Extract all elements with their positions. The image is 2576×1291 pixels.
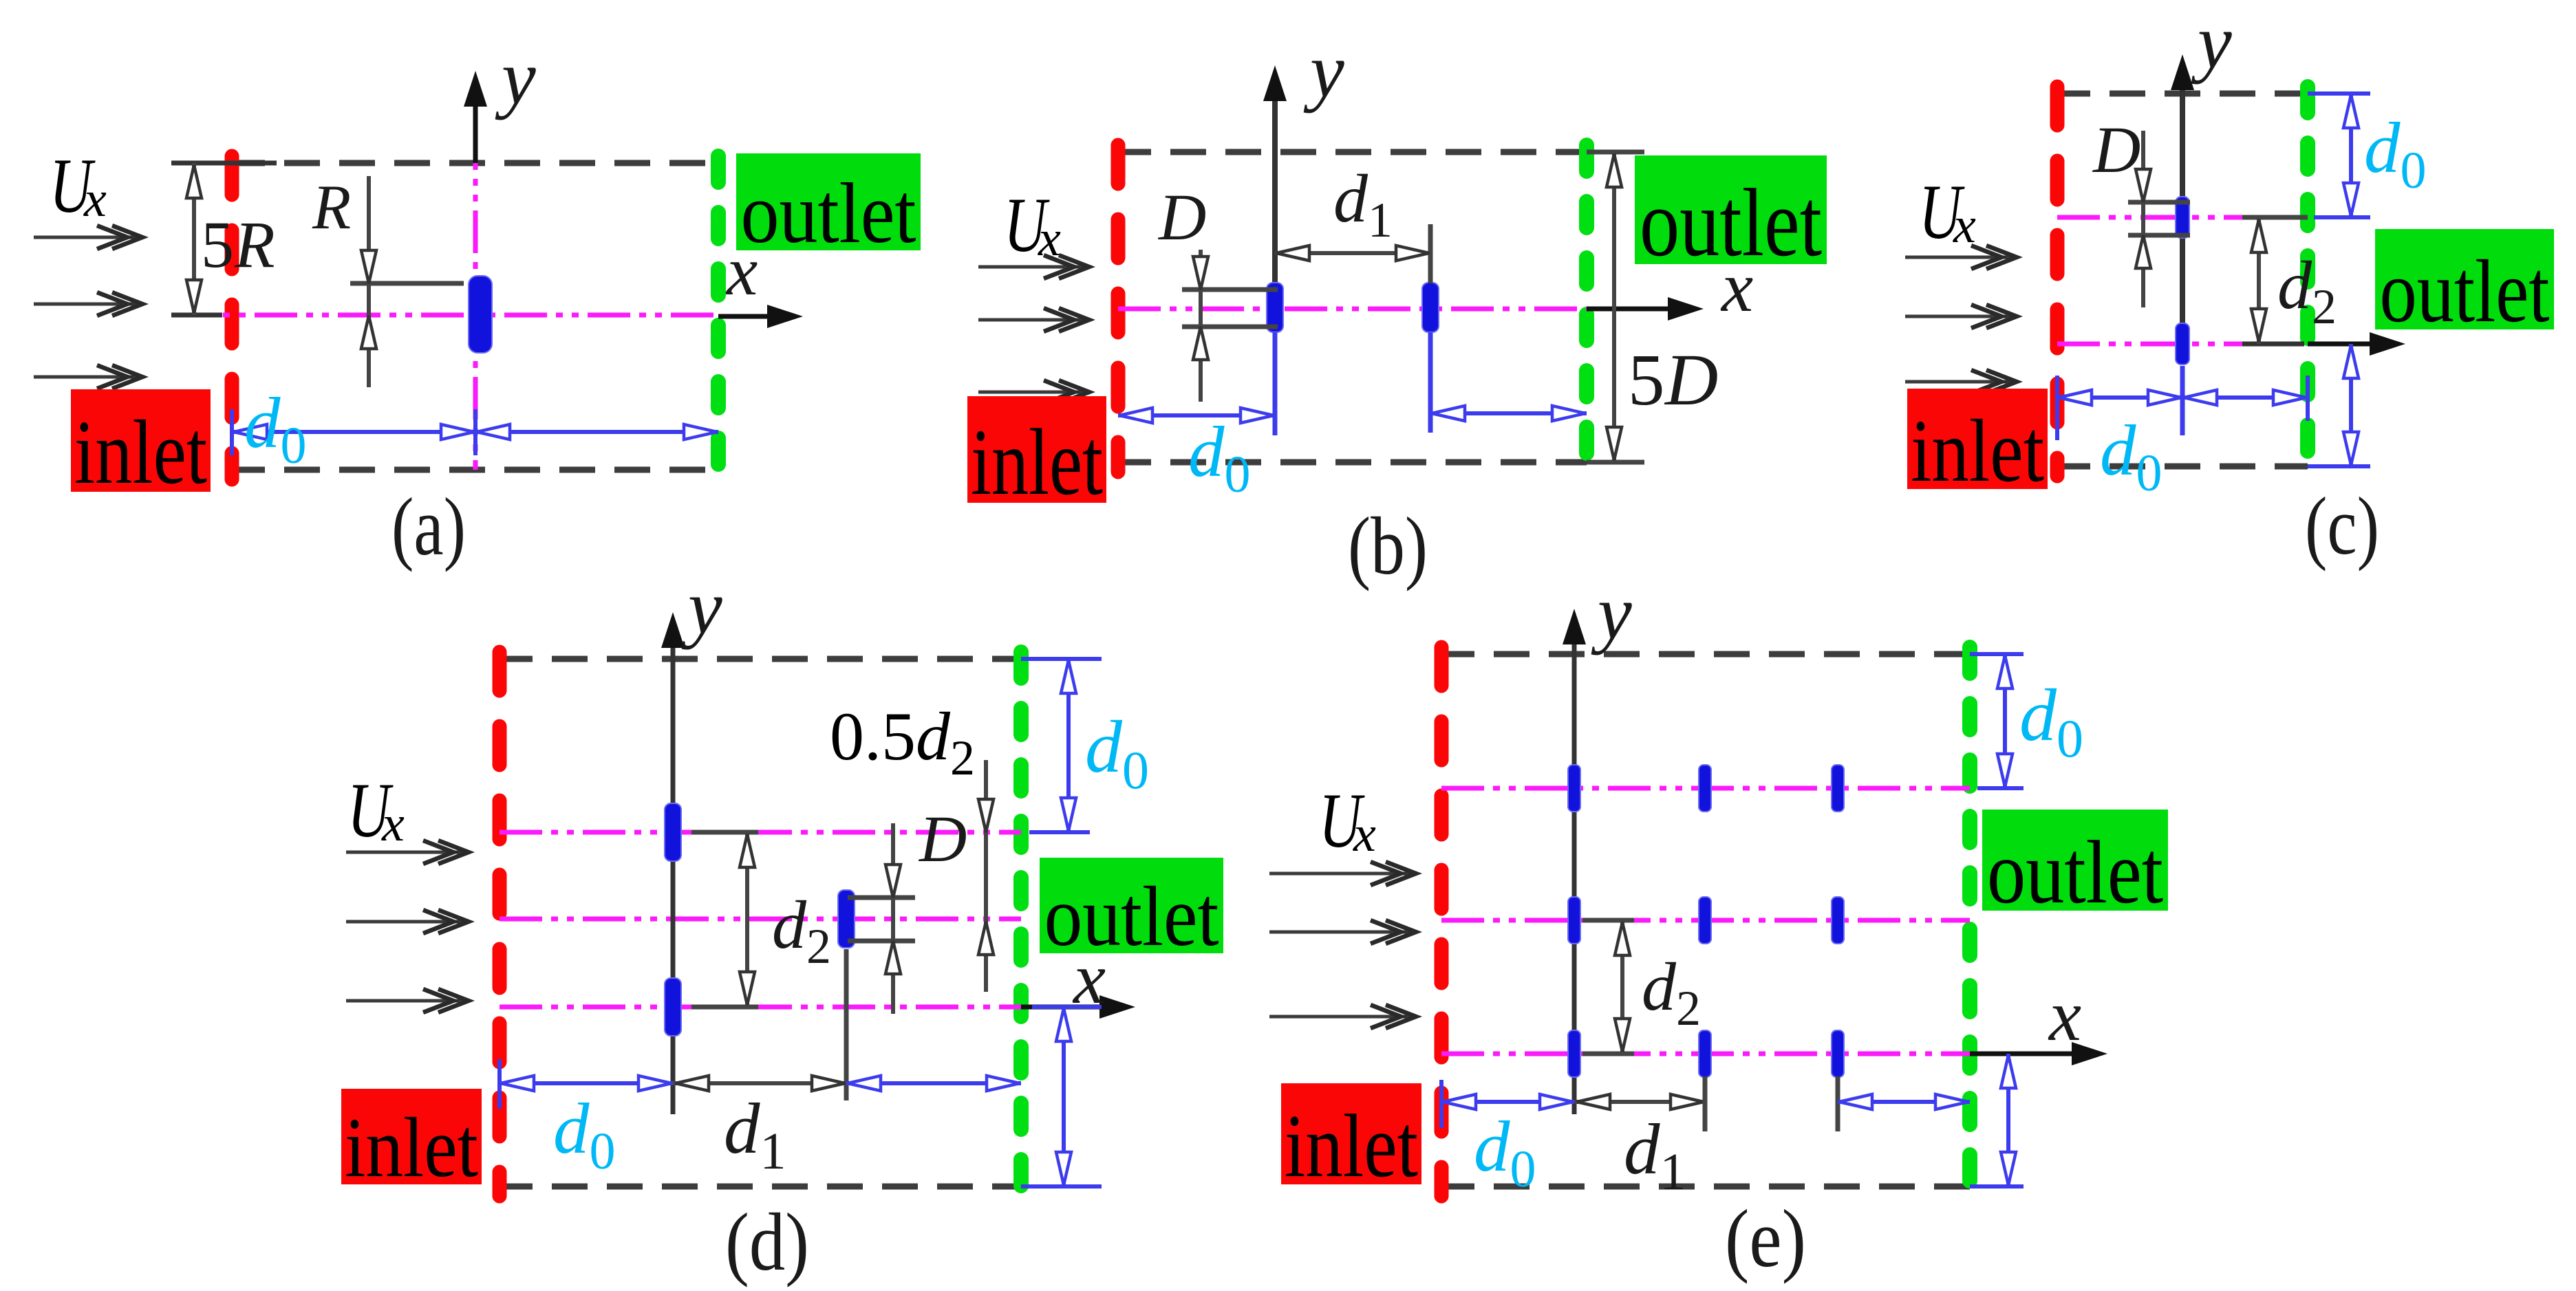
plate obstacle 1 (b): [1267, 283, 1283, 332]
svg-text:D: D: [1664, 340, 1718, 421]
plate obstacle upper (c): [2176, 197, 2189, 238]
centerline row1 (e): [1441, 786, 1970, 791]
inlet label box (e): [1281, 1083, 1421, 1184]
bottom-right vertical dimension (d): [1021, 1184, 1102, 1189]
d2 dimension (c): [2242, 215, 2308, 220]
D dimension (b): [1182, 288, 1278, 292]
domain boundary bottom wall (b): [1115, 459, 1587, 466]
svg-text:R: R: [312, 172, 351, 242]
5R dimension (a): [171, 161, 277, 166]
x-axis (c): [2242, 342, 2304, 347]
domain boundary top wall (b): [1115, 149, 1587, 155]
d0 chain dimension (c): [2055, 376, 2059, 440]
y-axis (c): [2180, 65, 2185, 324]
centerline row2 (e): [1441, 918, 1970, 923]
svg-text:x: x: [83, 171, 107, 228]
plate obstacle 2 (b): [1422, 283, 1439, 332]
horizontal centerline (a): [171, 313, 718, 318]
flow arrow (a) row2: [34, 303, 137, 306]
d0-d1 chain dimension (e): [1439, 1080, 1443, 1128]
plate obstacle row1 (d): [665, 803, 681, 861]
plate obstacle lower (c): [2176, 323, 2189, 365]
domain boundary top wall (a): [229, 160, 718, 166]
inlet boundary (red dashed) (a): [225, 156, 239, 479]
domain boundary top wall (c): [2054, 91, 2308, 97]
svg-text:x: x: [381, 796, 405, 852]
blue extension below lower obstacle (c): [2180, 366, 2185, 435]
outlet boundary (green dashed) (c): [2300, 87, 2315, 473]
flow arrow (c) row2: [1905, 315, 2011, 318]
inlet label box (a): [71, 389, 211, 492]
d1 dimension (b): [1275, 251, 1430, 255]
outlet label box (c): [2375, 229, 2554, 329]
domain boundary bottom wall (a): [229, 467, 718, 473]
tick at outlet end of d0 chain (c): [2306, 376, 2310, 421]
plate obstacle r1c2 (e): [1699, 765, 1711, 812]
x-axis (e): [1970, 1052, 2088, 1056]
domain boundary bottom wall (d): [497, 1184, 1021, 1190]
svg-text:(d): (d): [725, 1196, 809, 1288]
plate obstacle r3c2 (e): [1699, 1030, 1711, 1077]
d0-d1 chain dimension (d): [497, 1059, 502, 1109]
domain boundary top wall (e): [1439, 651, 1970, 658]
plate obstacle r2c1 (e): [1568, 897, 1580, 944]
upper centerline (c): [2057, 215, 2242, 220]
outlet boundary (green dashed) (a): [711, 156, 726, 476]
svg-text:outlet: outlet: [2380, 242, 2550, 341]
lower centerline (c): [2057, 342, 2242, 347]
svg-text:(c): (c): [2305, 480, 2379, 572]
outlet boundary (green dashed) (e): [1962, 647, 1977, 1193]
extension line above obstacle 2 (b): [1428, 224, 1433, 283]
x-axis (d): [1021, 1005, 1116, 1010]
outlet label box (d): [1040, 858, 1223, 953]
d0 right dimension (d): [1021, 657, 1102, 661]
centerline row2 (d): [500, 917, 1021, 922]
flow arrow (e) row1: [1269, 872, 1410, 876]
svg-text:R: R: [234, 208, 275, 281]
R dimension (a): [350, 281, 464, 286]
flow arrow (e) row2: [1269, 931, 1410, 934]
flow arrow (b) row3: [978, 391, 1084, 394]
extension below middle obstacle (d): [844, 949, 849, 1100]
d2 dimension (e): [1582, 918, 1634, 923]
inlet boundary (red dashed) (d): [493, 652, 507, 1196]
svg-text:inlet: inlet: [1285, 1096, 1418, 1196]
plate obstacle r2c2 (e): [1699, 897, 1711, 944]
flow arrow (d) row3: [346, 999, 463, 1003]
d0 top-right dimension (c): [2308, 91, 2370, 96]
y-axis (e): [1572, 619, 1577, 1114]
svg-text:5: 5: [201, 208, 234, 281]
svg-text:x: x: [2048, 975, 2081, 1056]
flow arrow (c) row1: [1905, 256, 2011, 259]
plate obstacle (a): [469, 276, 492, 353]
d0 right dimension (e): [1970, 652, 2024, 656]
flow arrow (e) row3: [1269, 1015, 1410, 1019]
svg-text:(b): (b): [1348, 500, 1428, 592]
d2 dimension (d): [691, 830, 758, 835]
outlet boundary (green dashed) (d): [1013, 652, 1029, 1193]
plate obstacle r3c1 (e): [1568, 1030, 1580, 1077]
x-axis (b): [1587, 307, 1684, 312]
svg-text:x: x: [1353, 806, 1376, 863]
plate obstacle r3c3 (e): [1832, 1030, 1844, 1077]
svg-text:outlet: outlet: [1640, 169, 1822, 276]
d0 chain dimension (a): [230, 409, 234, 455]
flow arrow (d) row1: [346, 851, 463, 854]
svg-text:D: D: [2092, 113, 2140, 186]
D dimension (c): [2128, 200, 2190, 205]
plate obstacle r1c3 (e): [1832, 765, 1844, 812]
y-axis (d): [671, 622, 676, 1114]
domain boundary top wall (d): [497, 656, 1021, 662]
0.5 d2 dimension (d): [984, 760, 988, 992]
blue segment col3-outlet (e): [1836, 1076, 1840, 1131]
flow arrow (a) row1: [34, 236, 137, 239]
5D dimension (b): [1587, 150, 1644, 155]
d0 right segment dimension (b): [1430, 411, 1587, 415]
svg-text:outlet: outlet: [741, 166, 916, 261]
centerline row1 (d): [500, 830, 1021, 835]
D dimension (d): [848, 896, 915, 900]
svg-text:(a): (a): [391, 481, 466, 572]
svg-text:(e): (e): [1725, 1193, 1806, 1284]
svg-text:inlet: inlet: [74, 401, 207, 503]
svg-text:outlet: outlet: [1044, 869, 1219, 964]
outlet label box (e): [1982, 810, 2168, 911]
outlet label box (b): [1635, 155, 1827, 264]
plate obstacle row2 (d): [838, 890, 855, 948]
centerline row3 (d): [500, 1005, 1021, 1010]
bottom-right vertical dimension (e): [1970, 1184, 2024, 1189]
svg-text:inlet: inlet: [971, 409, 1103, 514]
outlet label box (a): [736, 153, 921, 250]
inlet boundary (red dashed) (c): [2050, 87, 2065, 476]
blue extension below obstacle 1 (b): [1273, 332, 1278, 435]
d0 bottom-right dimension (c): [2308, 464, 2370, 468]
inlet boundary (red dashed) (e): [1435, 647, 1449, 1196]
flow arrow (a) row3: [34, 376, 137, 379]
inlet boundary (red dashed) (b): [1111, 145, 1126, 472]
domain boundary bottom wall (e): [1439, 1184, 1970, 1190]
plate obstacle row3 (d): [665, 978, 681, 1036]
centerline row3 (e): [1441, 1052, 1970, 1056]
horizontal centerline (b): [1118, 307, 1587, 312]
svg-text:inlet: inlet: [1911, 402, 2044, 501]
flow arrow (d) row2: [346, 920, 463, 924]
flow arrow (b) row2: [978, 318, 1084, 322]
flow arrow (c) row3: [1905, 380, 2011, 384]
plate obstacle r1c1 (e): [1568, 765, 1580, 812]
svg-text:inlet: inlet: [345, 1100, 478, 1195]
svg-text:5: 5: [1628, 340, 1665, 421]
d0 dimension (b): [1118, 413, 1275, 417]
plate obstacle r2c3 (e): [1832, 897, 1844, 944]
vertical centerline (a): [473, 127, 478, 470]
svg-text:D: D: [918, 802, 967, 876]
inlet label box (c): [1907, 389, 2048, 489]
svg-text:outlet: outlet: [1987, 823, 2163, 922]
y-axis (a): [473, 81, 478, 163]
blue extension below obstacle 2 (b): [1428, 332, 1433, 433]
outlet boundary (green dashed) (b): [1579, 145, 1594, 468]
svg-text:D: D: [1157, 180, 1206, 254]
inlet label box (b): [967, 396, 1106, 503]
domain boundary bottom wall (c): [2054, 464, 2308, 470]
inlet label box (d): [341, 1089, 482, 1184]
flow arrow (b) row1: [978, 265, 1084, 269]
x-axis (a): [718, 314, 784, 319]
y-axis (b): [1272, 76, 1278, 307]
